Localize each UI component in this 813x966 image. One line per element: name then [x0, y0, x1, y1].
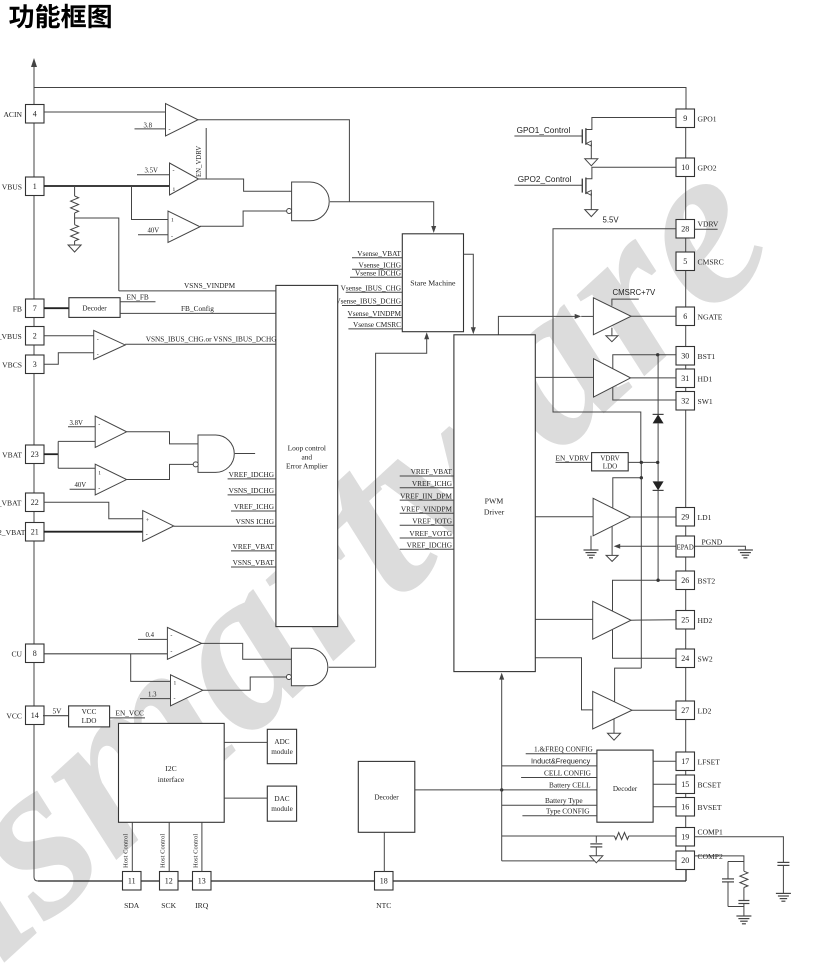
pin 1 VBUS: [26, 177, 45, 196]
svg-text:31: 31: [681, 374, 689, 383]
svg-text:ADC: ADC: [274, 738, 289, 746]
wire SW1: [613, 388, 676, 401]
amplifier U4 IBUS: [94, 330, 126, 359]
left supply bus: [33, 62, 35, 877]
ground U10: [611, 328, 613, 336]
svg-text:Vsense_IBUS_CHG: Vsense_IBUS_CHG: [341, 284, 402, 293]
svg-text:CMSRC+7V: CMSRC+7V: [613, 288, 656, 297]
svg-text:Battery Type: Battery Type: [545, 796, 583, 805]
net Battery Type: [502, 804, 597, 806]
wire U6 output: [127, 464, 199, 479]
svg-text:LDO: LDO: [82, 717, 97, 725]
block ADC module: [267, 729, 296, 763]
svg-text:25: 25: [681, 616, 689, 625]
junction BST2: [656, 579, 659, 582]
wire U12 output LD1: [631, 516, 677, 518]
wire I2C to DAC: [224, 797, 267, 799]
svg-text:module: module: [271, 805, 293, 813]
svg-text:29: 29: [681, 513, 689, 522]
svg-text:EN_VDRV: EN_VDRV: [196, 146, 203, 177]
svg-text:CMSRC: CMSRC: [698, 258, 724, 267]
svg-text:IRQ: IRQ: [195, 901, 209, 910]
block PWM Driver: [454, 335, 535, 672]
wire pin4 to comparator: [44, 111, 166, 113]
wire SW2: [613, 630, 677, 658]
svg-text:VBCS: VBCS: [2, 360, 22, 369]
svg-text:4: 4: [33, 110, 37, 119]
svg-text:VSNS_IBUS_CHG.or VSNS_IBUS_DCH: VSNS_IBUS_CHG.or VSNS_IBUS_DCHG: [146, 335, 278, 344]
wire decoder to BCSET: [653, 783, 676, 785]
wire EPAD arrow: [620, 545, 677, 547]
wire diode column top: [657, 355, 659, 415]
svg-text:-: -: [98, 422, 100, 428]
pin 13 IRQ: [193, 872, 212, 891]
block VDRV LDO: [592, 453, 629, 471]
svg-text:2: 2: [33, 332, 37, 341]
svg-text:VSNS_VBAT: VSNS_VBAT: [233, 558, 275, 567]
bottom rail: [38, 880, 686, 882]
svg-text:26: 26: [681, 576, 689, 585]
gate G3 NAND CU: [291, 648, 327, 686]
svg-text:Decoder: Decoder: [82, 305, 107, 313]
wire BST1: [613, 355, 676, 369]
block Decoder NTC: [358, 761, 415, 832]
svg-text:-: -: [170, 634, 172, 640]
svg-text:-: -: [170, 650, 172, 656]
svg-text:28: 28: [681, 225, 689, 234]
svg-text:Decoder: Decoder: [374, 794, 399, 802]
gate G2 NAND VBAT: [198, 435, 234, 472]
bus top arrow: [31, 58, 37, 67]
svg-text:3: 3: [33, 360, 37, 369]
svg-text:LD2: LD2: [698, 707, 712, 716]
svg-text:HD1: HD1: [698, 375, 713, 384]
svg-text:18: 18: [380, 877, 388, 886]
svg-text:1: 1: [98, 471, 101, 477]
net VSNS_IDCHG: [228, 494, 276, 496]
wire pin21 to amp bold: [44, 531, 143, 533]
resistor R2: [71, 225, 79, 241]
pin 21 2_VBAT: [26, 523, 45, 542]
pin 8 CU: [26, 644, 45, 663]
pin 23 VBAT: [26, 445, 45, 464]
svg-text:Driver: Driver: [484, 508, 505, 517]
ground PGND: [738, 549, 753, 551]
svg-text:11: 11: [128, 877, 136, 886]
wire I2C to ADC: [224, 741, 267, 743]
svg-text:SW2: SW2: [698, 655, 713, 664]
wire G2 output stub: [235, 453, 255, 455]
ground U14: [613, 719, 615, 733]
svg-text:Vsense_IBUS_DCHG: Vsense_IBUS_DCHG: [335, 297, 401, 306]
svg-text:5V: 5V: [53, 707, 63, 716]
pin 28 VDRV: [676, 220, 695, 239]
pin 32 SW1: [676, 392, 695, 411]
wire pin7 to decoder: [44, 307, 69, 309]
wire VDRV rail down: [640, 478, 642, 668]
svg-text:DAC: DAC: [274, 795, 289, 803]
junction supply branch: [640, 476, 643, 479]
comparator U3 40V: [168, 211, 200, 243]
gate G1 NAND: [292, 182, 330, 221]
capacitor C3: [727, 862, 729, 879]
svg-text:-: -: [97, 352, 99, 358]
svg-text:SW1: SW1: [698, 397, 713, 406]
comparator U5 3.8V: [95, 416, 126, 447]
wire BST2: [613, 580, 677, 611]
svg-text:LFSET: LFSET: [698, 758, 721, 767]
svg-text:VREF_IDCHG: VREF_IDCHG: [229, 470, 275, 479]
net VSNS_VINDPM: [119, 290, 276, 292]
svg-text:VREF_VOTG: VREF_VOTG: [409, 529, 452, 538]
svg-text:VBAT: VBAT: [2, 450, 22, 459]
svg-text:VREF_VBAT: VREF_VBAT: [411, 467, 453, 476]
svg-text:-: -: [174, 697, 176, 703]
wire VDRV rail: [553, 229, 676, 463]
ground Q2: [585, 210, 598, 217]
wire to pin20 COMP2: [502, 860, 676, 862]
top rail to pin 9: [34, 88, 686, 110]
block State Machine: [402, 234, 463, 332]
capacitor C2: [777, 861, 789, 863]
wire PGND: [695, 546, 746, 550]
driver U12 LD1: [535, 516, 593, 518]
pin 22 _VBAT: [26, 493, 45, 512]
pin 27 LD2: [676, 701, 695, 720]
capacitor C1: [595, 836, 597, 843]
svg-text:VSNS_IDCHG: VSNS_IDCHG: [229, 486, 275, 495]
svg-text:VBUS: VBUS: [2, 182, 22, 191]
junction BST1: [656, 353, 659, 356]
wire U1 output: [198, 120, 349, 202]
comparator U1 ACIN: [166, 104, 199, 137]
net VREF_VBAT: [231, 550, 276, 552]
wire LD2 input: [535, 658, 592, 710]
svg-text:Error Amplier: Error Amplier: [286, 462, 328, 471]
pin 6 NGATE: [676, 307, 695, 326]
net 1.&FREQ CONFIG: [526, 753, 597, 755]
comparator U8 0.4: [167, 627, 201, 659]
svg-text:Host Control: Host Control: [160, 834, 167, 868]
svg-text:VREF_VBAT: VREF_VBAT: [233, 542, 275, 551]
wire U5 output: [127, 432, 198, 444]
svg-text:EPAD: EPAD: [677, 545, 694, 552]
net EN_FB: [120, 301, 155, 303]
svg-text:Battery CELL: Battery CELL: [549, 781, 591, 790]
svg-text:NGATE: NGATE: [698, 313, 723, 322]
svg-text:module: module: [271, 748, 293, 756]
net VREF_ICHG: [231, 510, 276, 512]
wire NAND G3 to state machine bottom: [376, 338, 427, 668]
ground U12 earth: [590, 536, 592, 550]
pin 3 VBCS: [26, 355, 45, 374]
svg-text:-: -: [97, 337, 99, 343]
net VSNS ICHG: [174, 525, 276, 527]
svg-text:Vsense_VBAT: Vsense_VBAT: [357, 249, 401, 258]
svg-text:I2C: I2C: [165, 764, 176, 773]
wire state machine to PWM driver: [464, 254, 474, 329]
svg-text:Host Control: Host Control: [123, 834, 130, 868]
wire VBUS bold: [44, 185, 170, 187]
net Vsense IDCHG: [350, 276, 402, 278]
net VREF_IDCHG: [400, 548, 454, 550]
wire U3 output: [200, 211, 287, 226]
svg-text:GPO2: GPO2: [698, 164, 717, 173]
pin 9 GPO1: [676, 109, 695, 128]
pin 5 CMSRC: [676, 252, 695, 271]
pin 26 BST2: [676, 571, 695, 590]
net Vsense_IBUS_DCHG: [342, 305, 402, 307]
ground C1: [590, 856, 603, 863]
pin 4 ACIN: [26, 105, 45, 124]
net Vsense CMSRC: [348, 328, 402, 330]
pin 28 VDRV stub: [695, 228, 718, 230]
svg-text:COMP1: COMP1: [698, 828, 724, 837]
svg-text:VSNS_VINDPM: VSNS_VINDPM: [184, 281, 236, 290]
pin 25 HD2: [676, 611, 695, 630]
svg-text:VREF_IDCHG: VREF_IDCHG: [407, 541, 453, 550]
ground divider: [68, 245, 81, 252]
svg-text:27: 27: [681, 706, 689, 715]
pin 19 COMP1: [676, 828, 695, 847]
wire G1 output to state machine: [330, 202, 434, 229]
svg-text:10: 10: [681, 163, 689, 172]
wire COMP1 left: [502, 835, 615, 837]
svg-text:1.3: 1.3: [148, 691, 157, 698]
svg-text:Decoder: Decoder: [613, 785, 638, 793]
wire U8 output: [202, 643, 292, 659]
junction LDO-rail: [640, 461, 643, 464]
driver U11 HD1: [535, 376, 593, 378]
pin 14 VCC: [26, 706, 45, 725]
svg-text:EN_VCC: EN_VCC: [116, 709, 145, 718]
svg-text:1: 1: [173, 187, 176, 193]
comparator U6 40V: [95, 464, 126, 495]
junction decoder-PWM: [500, 788, 503, 791]
svg-text:VCC: VCC: [82, 708, 97, 716]
net Type CONFIG: [522, 815, 597, 817]
svg-text:1: 1: [171, 218, 174, 224]
net Induct&Frequency: [502, 765, 597, 767]
svg-text:BST2: BST2: [698, 577, 716, 586]
wire pin8 to comparators: [44, 653, 167, 655]
svg-text:-: -: [169, 128, 171, 134]
svg-text:LDO: LDO: [603, 463, 617, 471]
comparator U2 3.5V: [170, 163, 199, 195]
svg-text:GPO2_Control: GPO2_Control: [518, 175, 572, 184]
net VREF_IIN_DPM: [400, 499, 454, 501]
svg-text:VDRV: VDRV: [698, 220, 719, 229]
amplifier U7 ICHG: [143, 511, 174, 542]
svg-text:-: -: [146, 532, 148, 538]
svg-text:SDA: SDA: [124, 901, 140, 910]
svg-text:BVSET: BVSET: [698, 803, 722, 812]
right pin column connector: [685, 128, 687, 159]
block Loop control and Error Amplifier: [276, 285, 338, 626]
svg-text:16: 16: [681, 803, 689, 812]
net VREF_IOTG: [400, 524, 454, 526]
wire I2C host control: [168, 822, 170, 871]
svg-text:30: 30: [681, 352, 689, 361]
resistor R1: [71, 196, 79, 213]
svg-text:VREF_ICHG: VREF_ICHG: [412, 479, 453, 488]
wire U10 output: [631, 315, 676, 317]
svg-text:VCC: VCC: [6, 711, 22, 720]
svg-text:BCSET: BCSET: [698, 781, 722, 790]
wire I2C host control: [131, 822, 133, 871]
net VREF_VBAT: [400, 475, 454, 477]
svg-text:Loop control: Loop control: [288, 444, 326, 453]
svg-text:Host Control: Host Control: [192, 834, 199, 868]
svg-text:+: +: [146, 518, 150, 524]
wire divider tap: [74, 186, 76, 196]
pin 24 SW2: [676, 649, 695, 668]
net Vsense_VINDPM: [348, 317, 403, 319]
ground Q1: [585, 159, 598, 166]
wire COMP2 right: [695, 856, 744, 862]
pin EPAD: [676, 536, 695, 557]
net VSNS_VBAT: [231, 566, 276, 568]
wire PWM bottom feedback: [501, 678, 503, 861]
svg-text:3.8: 3.8: [144, 122, 153, 129]
pin 12 SCK: [160, 872, 179, 891]
wire U9 output: [203, 677, 288, 690]
svg-text:3.5V: 3.5V: [145, 168, 158, 175]
svg-text:1: 1: [174, 681, 177, 687]
wire G3 output: [329, 666, 376, 668]
wire pin23 branches: [44, 453, 59, 455]
svg-text:20: 20: [681, 856, 689, 865]
svg-text:40V: 40V: [148, 227, 160, 234]
svg-text:PWM: PWM: [485, 497, 504, 506]
svg-text:Vsense IDCHG: Vsense IDCHG: [355, 269, 402, 278]
svg-text:21: 21: [31, 528, 39, 537]
svg-text:VREF_IIN_DPM: VREF_IIN_DPM: [400, 491, 452, 500]
svg-text:S_VBAT: S_VBAT: [0, 498, 22, 507]
block DAC module: [267, 786, 296, 821]
wire COMP1 right: [695, 837, 784, 863]
svg-text:13: 13: [198, 877, 206, 886]
net VREF_ICHG: [400, 487, 454, 489]
wire COMP2 join: [728, 906, 744, 908]
svg-text:6: 6: [683, 312, 687, 321]
svg-text:24: 24: [681, 654, 689, 663]
wire LDO output: [628, 461, 658, 463]
svg-text:40V: 40V: [75, 482, 87, 489]
net Vsense_ICHG: [352, 268, 402, 270]
svg-text:VREF_IOTG: VREF_IOTG: [412, 516, 452, 525]
wire PWM to NGATE comparator: [498, 316, 575, 334]
svg-text:LD1: LD1: [698, 513, 712, 522]
net FB_Config: [120, 312, 276, 314]
driver U13 HD2: [535, 618, 592, 620]
svg-text:and: and: [301, 453, 312, 462]
wire R1-R2 junction to VSNS_VINDPM: [75, 218, 119, 291]
pin 7 FB: [26, 299, 45, 318]
svg-text:3.8V: 3.8V: [70, 420, 83, 427]
net VREF_IDCHG: [228, 478, 276, 480]
wire pin14 to LDO: [43, 715, 69, 717]
wire VBUS to 40V comparator: [132, 186, 169, 220]
svg-text:FB_Config: FB_Config: [181, 304, 214, 313]
svg-text:CU: CU: [11, 649, 22, 658]
net VREF_VOTG: [400, 537, 454, 539]
svg-text:5: 5: [683, 257, 687, 266]
wire LD1 supply branch: [613, 462, 642, 507]
svg-text:ACIN: ACIN: [3, 110, 22, 119]
pin 11 SDA: [123, 872, 142, 891]
svg-text:12: 12: [165, 877, 173, 886]
wire U11 output HD1: [631, 377, 676, 379]
svg-text:1: 1: [33, 182, 37, 191]
wire U14 output LD2: [632, 709, 676, 711]
svg-text:23: 23: [31, 450, 39, 459]
svg-text:Type CONFIG: Type CONFIG: [546, 807, 590, 816]
diode D1: [653, 413, 664, 415]
block VCC LDO: [69, 706, 110, 727]
pin 31 HD1: [676, 369, 695, 388]
svg-text:14: 14: [31, 711, 39, 720]
svg-text:0.4: 0.4: [146, 632, 155, 639]
svg-text:CELL CONFIG: CELL CONFIG: [544, 768, 592, 777]
net EN_VCC: [110, 717, 145, 719]
svg-text:Stare Machine: Stare Machine: [410, 279, 456, 288]
svg-text:EN_VDRV: EN_VDRV: [556, 453, 590, 462]
pin 20 COMP2: [676, 851, 695, 870]
pin 15 BCSET: [676, 775, 695, 794]
pin 17 LFSET: [676, 752, 695, 771]
pin 30 BST1: [676, 347, 695, 366]
svg-text:PGND: PGND: [702, 538, 723, 547]
resistor R4 COMP2: [743, 862, 745, 872]
svg-text:32: 32: [681, 397, 689, 406]
svg-text:Vsense CMSRC: Vsense CMSRC: [353, 320, 401, 329]
svg-text:1.&FREQ CONFIG: 1.&FREQ CONFIG: [534, 745, 594, 754]
svg-text:EN_FB: EN_FB: [127, 293, 149, 302]
svg-text:Induct&Frequency: Induct&Frequency: [531, 757, 591, 766]
ground COMP2: [736, 915, 751, 917]
ground U12 arrow: [611, 526, 613, 555]
block I2C interface: [119, 723, 225, 822]
svg-text:interface: interface: [158, 775, 185, 784]
pin 18 NTC: [375, 872, 394, 891]
wire decoder to LFSET: [653, 760, 676, 762]
pin 16 BVSET: [676, 798, 695, 817]
wire U2 output: [199, 179, 292, 191]
svg-text:9: 9: [683, 114, 687, 123]
diode D2: [657, 462, 659, 481]
svg-text:VREF_VINDPM: VREF_VINDPM: [401, 504, 453, 513]
svg-text:S_VBUS: S_VBUS: [0, 332, 22, 341]
block FB Decoder: [69, 298, 120, 318]
block Decoder config: [597, 750, 653, 822]
svg-text:-: -: [98, 486, 100, 492]
svg-text:15: 15: [681, 780, 689, 789]
driver U10 NGATE: [593, 298, 631, 335]
net VREF_VINDPM: [400, 512, 454, 514]
wire pin22 to amp: [44, 502, 143, 519]
svg-text:8: 8: [33, 649, 37, 658]
svg-text:VDRV: VDRV: [600, 454, 619, 462]
wire pin2 to amp: [44, 335, 94, 337]
net VSNS_IBUS: [125, 343, 276, 345]
capacitor C4: [743, 888, 745, 901]
svg-text:Vsense_VINDPM: Vsense_VINDPM: [347, 309, 401, 318]
svg-text:7: 7: [33, 304, 37, 313]
pin 2 _VBUS: [26, 327, 45, 346]
svg-text:5.5V: 5.5V: [603, 216, 620, 225]
svg-text:2_VBAT: 2_VBAT: [0, 528, 26, 537]
